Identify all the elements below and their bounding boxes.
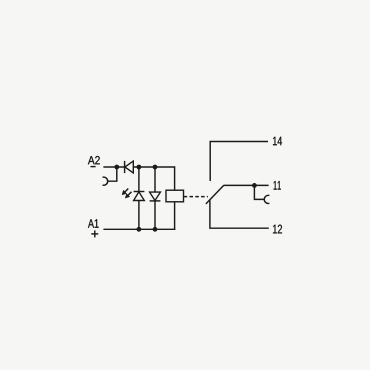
- wire terminal 14: [210, 142, 268, 182]
- pin label 14: [273, 137, 282, 145]
- diode V1 cathode bar: [124, 161, 126, 173]
- suppressor diode triangle: [150, 192, 161, 200]
- relay coil K1: [166, 190, 184, 202]
- fixed contact NC wire to 12: [210, 200, 269, 228]
- junction dot bottom LED branch: [137, 227, 142, 232]
- terminal label A2: [88, 156, 100, 164]
- LED branch upper wire: [138, 167, 140, 192]
- wire diode to coil branch (top rail): [133, 166, 174, 168]
- junction dot A2/tap: [114, 165, 119, 170]
- test tap wire from 11: [254, 185, 264, 199]
- mechanical link dashed: [184, 196, 208, 198]
- bottom rail A1: [103, 228, 175, 230]
- tap wire from A2 junction: [108, 167, 117, 181]
- LED cathode bar: [134, 191, 145, 193]
- wire terminal 11: [224, 184, 269, 186]
- suppressor diode cathode bar: [150, 200, 161, 202]
- diode V1 triangle: [125, 161, 133, 173]
- junction dot top LED branch: [137, 165, 142, 170]
- LED emission arrow upper: [122, 189, 129, 196]
- terminal label A1: [88, 219, 99, 227]
- junction dot bottom suppressor branch: [153, 227, 158, 232]
- polarity minus at A2: [91, 166, 96, 168]
- coil branch upper wire: [174, 166, 176, 190]
- LED branch lower wire: [138, 201, 140, 230]
- junction dot top suppressor branch: [153, 165, 158, 170]
- suppressor diode branch upper wire: [154, 167, 156, 192]
- pin label 11: [274, 181, 281, 190]
- LED emission arrow lower: [125, 192, 132, 199]
- plug socket arc at A2 tap: [103, 177, 108, 185]
- plug socket arc at 11 tap: [264, 195, 269, 203]
- junction dot on wire 11: [252, 183, 257, 188]
- pin label 12: [273, 225, 282, 234]
- LED triangle: [134, 192, 145, 201]
- polarity plus at A1: [91, 230, 98, 237]
- movable contact arm: [206, 185, 224, 204]
- coil branch lower wire: [174, 202, 176, 230]
- suppressor branch lower wire: [154, 201, 156, 229]
- wire A2 to diode: [103, 166, 124, 168]
